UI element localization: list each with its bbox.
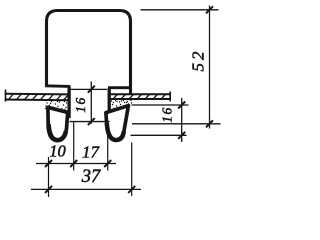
svg-text:52: 52 <box>189 49 208 72</box>
sealant stipple left <box>46 102 67 112</box>
tick 10/17 <box>70 160 77 167</box>
dim 16 centre: tick bottom <box>88 118 95 125</box>
left gasket <box>48 107 68 140</box>
right gasket <box>106 106 128 141</box>
dim 16 right: tick bottom <box>178 132 185 139</box>
left panel end cap <box>5 90 7 102</box>
dim line 37 <box>31 188 141 190</box>
tick 10 left <box>45 160 52 167</box>
bottom dims: extension line B (x=73.7) <box>73 122 75 171</box>
bottom dims: extension line D (x=131.7) <box>131 143 133 197</box>
svg-text:37: 37 <box>81 167 101 187</box>
svg-text:16: 16 <box>160 106 175 123</box>
bottom dims: extension line C (x=107.7) <box>107 122 109 171</box>
tick 37 left <box>45 186 52 193</box>
dim 16 right: tick top <box>178 102 185 109</box>
dim 16 right: extension bottom <box>131 134 187 136</box>
svg-text:10: 10 <box>49 142 66 161</box>
left panel bottom line <box>5 99 69 102</box>
dim 52: tick top <box>206 6 213 13</box>
right panel end cap <box>169 92 171 102</box>
right panel hatch <box>113 94 166 98</box>
tick 17 right <box>104 160 111 167</box>
cap left step <box>45 84 70 87</box>
dim 16 centre: reference line at step level <box>71 88 108 90</box>
cap right leg <box>108 88 111 119</box>
tick 37 right <box>128 186 135 193</box>
dim 16 right: extension top <box>132 104 189 106</box>
right panel bottom line <box>111 98 171 100</box>
left gasket bottom emphasis <box>49 124 66 140</box>
dim 16 right: dimension line <box>181 98 183 142</box>
dim 16 centre: dimension line <box>90 82 92 124</box>
gap bottom line between legs <box>70 121 110 123</box>
dim 16 centre: tick top <box>88 86 95 93</box>
left panel top line <box>5 93 69 96</box>
right panel top line <box>111 93 171 95</box>
dim 52: dimension line <box>209 6 211 129</box>
left panel hatch <box>9 94 69 100</box>
dim 52: extension bottom <box>132 123 221 125</box>
dim line 10/17 <box>36 163 116 165</box>
sealant stipple right <box>110 101 132 110</box>
cap right step <box>108 86 132 89</box>
bottom dims: extension line A (x=48.5) <box>48 157 50 197</box>
dim 52: tick bottom <box>206 120 213 127</box>
svg-text:17: 17 <box>82 142 101 161</box>
right gasket bottom emphasis <box>107 123 124 140</box>
svg-text:16: 16 <box>73 96 88 113</box>
dim 52: extension top <box>141 9 219 11</box>
cap left leg <box>67 86 70 118</box>
cap cover strip profile <box>47 11 131 94</box>
